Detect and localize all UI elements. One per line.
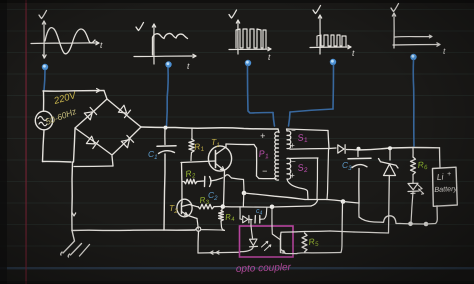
waveform 3 axes (V vs t, PWM) xyxy=(229,10,271,62)
opto light arrows xyxy=(262,241,271,250)
waveform 4 axes (V vs t, PWM narrow) xyxy=(310,6,355,59)
secondary winding S1 xyxy=(287,131,291,149)
wire S1 top loop xyxy=(287,129,329,131)
probe lead 2 xyxy=(167,68,169,126)
transistor T2 xyxy=(177,199,192,217)
opto phototransistor xyxy=(271,208,273,227)
resistor R1 xyxy=(191,129,193,140)
wire bridge bottom vertex to ground bus xyxy=(112,156,113,166)
resistor R2 xyxy=(182,181,184,183)
wire battery top lead xyxy=(439,148,442,168)
bridge diode D1 (top-left arm) xyxy=(84,112,92,120)
wire node B down xyxy=(242,193,245,207)
wire primary ground rail xyxy=(72,229,195,232)
wire output rail xyxy=(358,148,390,150)
node F junction dot (battery return) xyxy=(424,222,429,227)
wire battery bottom lead xyxy=(426,206,437,224)
waveform 5 DC level line xyxy=(395,36,431,39)
wire zener/R5 top row xyxy=(354,232,389,233)
wire S2 bottom return xyxy=(287,179,308,200)
resistor R5 xyxy=(302,233,307,252)
resistor R3 xyxy=(198,204,214,209)
resistor R6 xyxy=(412,148,414,157)
probe point 3 (switch node) xyxy=(245,60,251,66)
wire secondary common xyxy=(305,199,327,201)
probe lead 1 xyxy=(44,70,45,90)
diode D5 xyxy=(240,218,242,220)
rail knot loop xyxy=(196,227,225,231)
waveform 2 rectified humps xyxy=(153,33,188,55)
bridge diode D4 (bottom-right arm) xyxy=(121,140,129,148)
bridge diode D2 (top-right arm) xyxy=(118,105,126,113)
waveform 5 axes (V vs t, DC) xyxy=(391,4,446,57)
waveform 4 PWM pulses xyxy=(317,35,346,46)
wire T1 emitter down xyxy=(224,171,225,206)
wire secondary common to bottom rail xyxy=(343,202,359,204)
opto LED xyxy=(250,220,252,226)
battery Li+ box xyxy=(433,167,458,206)
wire opto emitter bottom row xyxy=(305,252,341,254)
wire bridge arm bottom-left xyxy=(75,128,112,155)
wire S1 edge down to secondary common xyxy=(327,149,329,200)
probe point 4 (secondary pulse) xyxy=(330,59,336,65)
secondary winding S2 xyxy=(287,158,291,179)
wire T1 emitter branch to feedback xyxy=(224,175,232,178)
LED indicator xyxy=(412,175,414,184)
wire left vertical to ground xyxy=(71,162,74,231)
bridge diode D3 (bottom-left arm) xyxy=(86,136,94,144)
waveform 2 axes (V vs t, rectified) xyxy=(134,23,196,72)
wire DC+ top rail xyxy=(141,127,278,129)
diode D6 output rectifier xyxy=(329,147,336,150)
waveform 3 PWM pulses xyxy=(236,29,266,48)
primary winding P1 xyxy=(275,132,279,180)
wire branch down to D5 xyxy=(239,207,241,219)
AC source V1 220V 50-60Hz xyxy=(35,111,52,130)
wire T2 emitter to rail xyxy=(197,219,198,230)
wire bridge arm top-left xyxy=(75,99,107,128)
node A junction dot xyxy=(221,204,226,209)
zener diode Z1 xyxy=(389,149,391,161)
probe lead 3 xyxy=(247,66,273,113)
node E junction dot (LED return) xyxy=(408,222,413,227)
probe point 5 (DC output) xyxy=(410,54,416,60)
node rail/C1 junction dot xyxy=(164,126,168,130)
wire AC top to bridge xyxy=(43,90,104,93)
resistor R4 xyxy=(222,208,223,211)
capacitor C4 xyxy=(254,216,256,224)
probe point 1 (mains input) xyxy=(42,64,48,70)
waveform 1 axes (V vs t, mains sine) xyxy=(31,11,103,59)
wire T1 base node xyxy=(181,161,215,163)
node D junction dot xyxy=(341,199,346,204)
wire bridge arm top-right xyxy=(107,99,141,127)
wire bridge arm bottom-right xyxy=(112,127,141,155)
probe lead 5 xyxy=(412,60,415,146)
capacitor C3 xyxy=(357,149,359,157)
waveform 1 sine curve xyxy=(45,28,95,54)
capacitor C1 xyxy=(164,128,166,145)
wire rail down to opto LED xyxy=(197,231,200,253)
wire T1 collector to primary xyxy=(226,143,254,146)
ground symbol xyxy=(72,231,75,242)
capacitor C2 xyxy=(197,180,204,183)
wire S2 top loop xyxy=(287,157,318,160)
wire S2 right edge down xyxy=(316,158,319,200)
wire node D down to opto xyxy=(341,202,343,253)
wire bridge left vertex down xyxy=(74,129,76,162)
wire control row xyxy=(223,206,240,208)
node C junction dot xyxy=(270,205,275,210)
wire bottom rail with hop over zener lead xyxy=(359,216,400,224)
optocoupler box xyxy=(240,226,294,257)
node B junction dot xyxy=(242,191,247,196)
wire node B to S2 return xyxy=(244,193,305,200)
probe point 2 (rectifier output) xyxy=(165,61,171,67)
transistor T1 xyxy=(208,146,231,171)
probe lead 4 xyxy=(332,65,335,109)
